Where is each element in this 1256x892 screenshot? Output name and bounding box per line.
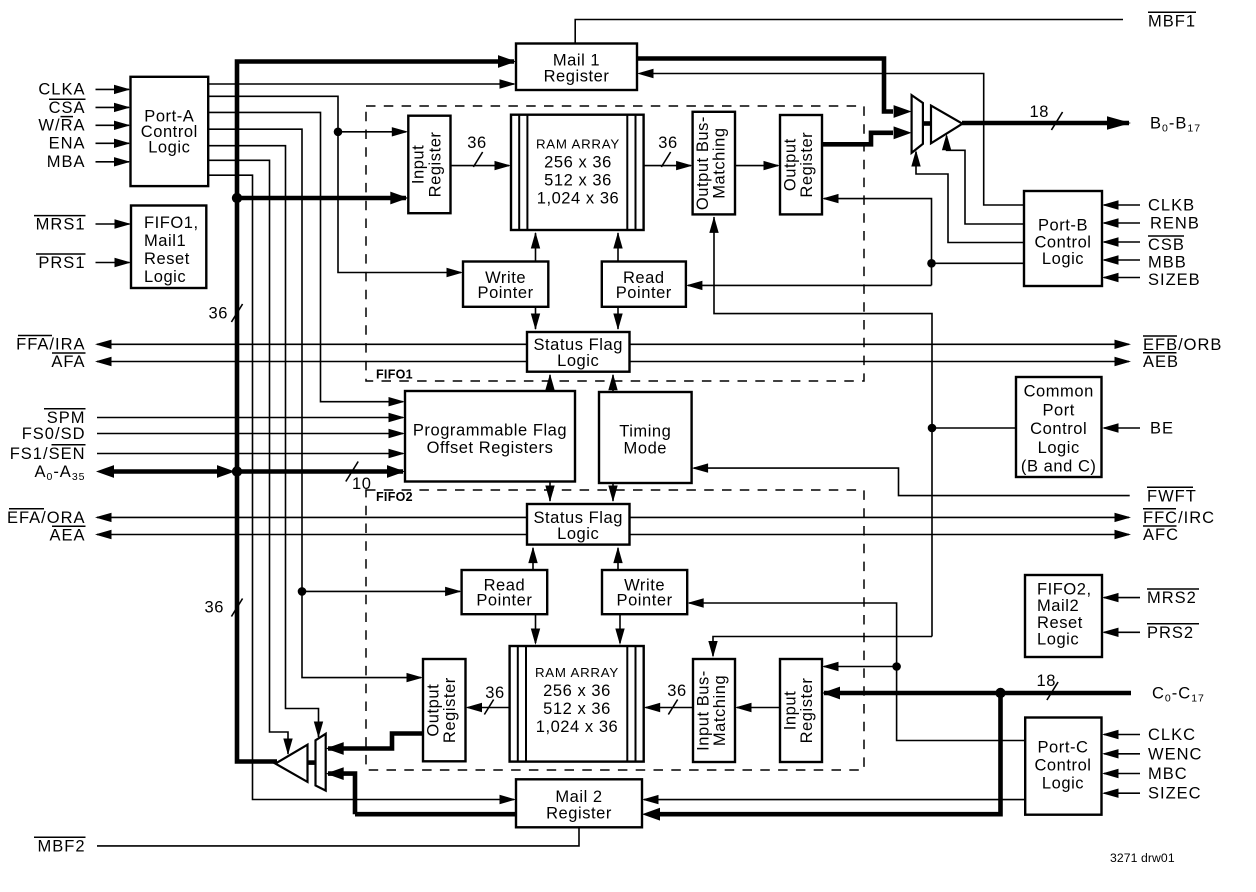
pin arrow Mail 2 write from Port-C bbox=[642, 795, 659, 804]
label C0-C17 bbox=[1152, 684, 1205, 704]
svg-text:MBB: MBB bbox=[1148, 254, 1187, 272]
pin arrow mux 2 input from C bus (thick) bbox=[326, 767, 344, 780]
label FS0/SD bbox=[22, 425, 86, 443]
pin arrow FWFT into Timing Mode bbox=[692, 463, 709, 472]
label CLKB bbox=[1148, 197, 1195, 215]
svg-text:CLKB: CLKB bbox=[1148, 197, 1195, 215]
svg-text:Control: Control bbox=[1034, 757, 1091, 775]
svg-text:FIFO1: FIFO1 bbox=[376, 368, 413, 382]
wire Common Port Control to Bus-Matching blocks bbox=[713, 217, 1016, 656]
node Common Port control junction bbox=[928, 424, 937, 433]
svg-text:PRS2: PRS2 bbox=[1147, 624, 1194, 642]
wire AEA - AFC status line bbox=[97, 534, 1129, 536]
svg-text:Port-B: Port-B bbox=[1038, 217, 1088, 235]
pin arrow A0-A35 left (thick) bbox=[96, 465, 114, 478]
block Output Register 2 bbox=[423, 659, 466, 761]
pin arrow Write Pointer 1 to Status Flag Logic 1 bbox=[531, 314, 540, 331]
wire Read Pointer 2 to RAM array 2 bbox=[535, 614, 537, 643]
svg-text:10: 10 bbox=[352, 475, 371, 493]
bus width 36 slash on A-bus upper bbox=[209, 304, 243, 323]
label MBB bbox=[1148, 254, 1187, 272]
pin arrow Read Pointer 2 control bbox=[445, 587, 462, 596]
wire A-port data bus spine (thick) bbox=[237, 62, 514, 762]
wire Input Register 1 to RAM array 1 (36) bbox=[451, 165, 510, 167]
wire Port-C to Write Pointer 2 and Input Register 2 bbox=[689, 603, 1025, 741]
FIFO2 dashed boundary bbox=[366, 490, 864, 770]
wire Port-A line 3 to Programmable Flag Offset Registers bbox=[208, 112, 403, 401]
buffer B output (triangle) bbox=[923, 106, 963, 144]
block Input Register 2 bbox=[780, 659, 822, 762]
svg-text:Mode: Mode bbox=[624, 440, 667, 458]
pin arrow mux 1 input from Output Register 1 (thick) bbox=[894, 126, 912, 139]
pin arrows into FIFO2 Mail2 Reset Logic bbox=[1102, 593, 1119, 637]
wire Port-A line 5 to output mux 2 select bbox=[208, 146, 319, 737]
wire RENB input bbox=[1104, 222, 1140, 224]
svg-text:MRS1: MRS1 bbox=[36, 216, 86, 234]
svg-text:Pointer: Pointer bbox=[617, 591, 673, 609]
wire CLKB input bbox=[1104, 204, 1140, 206]
wire B0-B17 output bus (thick) bbox=[962, 121, 1129, 126]
wire CSA input bbox=[96, 106, 130, 108]
svg-text:FFC/IRC: FFC/IRC bbox=[1143, 509, 1215, 527]
pin arrow mux 1 select bbox=[911, 150, 920, 167]
pin arrows status FIFO1 left bbox=[95, 340, 112, 367]
block Mail 1 Register bbox=[516, 44, 637, 91]
svg-text:18: 18 bbox=[1037, 672, 1056, 690]
svg-text:MBF2: MBF2 bbox=[37, 837, 85, 855]
wire RAM array 2 to Output Register 2 (36) bbox=[468, 707, 510, 709]
wire Output Bus-Matching to Output Register 1 bbox=[735, 165, 778, 167]
wire MRS2 input bbox=[1104, 597, 1140, 599]
label BE bbox=[1150, 419, 1174, 437]
svg-text:Timing: Timing bbox=[619, 423, 671, 441]
svg-text:AFC: AFC bbox=[1143, 526, 1179, 544]
svg-text:AEA: AEA bbox=[49, 526, 85, 544]
svg-text:3271 drw01: 3271 drw01 bbox=[1110, 851, 1175, 865]
pin arrow Input Register 2 to Input Bus-Matching bbox=[735, 703, 752, 712]
label SIZEC bbox=[1148, 785, 1202, 803]
label FIFO1 boundary bbox=[376, 368, 413, 382]
wire MBA input bbox=[96, 161, 130, 163]
block FIFO1 Mail1 Reset Logic bbox=[131, 206, 206, 289]
pin arrows into Port-A Control Logic bbox=[114, 85, 131, 167]
svg-text:MBC: MBC bbox=[1148, 765, 1188, 783]
node A0-A35 junction bbox=[232, 466, 242, 476]
svg-text:FFA/IRA: FFA/IRA bbox=[16, 336, 85, 354]
label PRS1 (active low) bbox=[36, 254, 86, 272]
svg-text:18: 18 bbox=[1030, 103, 1049, 121]
label AEB bbox=[1143, 353, 1179, 371]
pin arrow buffer 2 enable bbox=[283, 739, 292, 756]
pin arrows into Port-B Control Logic bbox=[1102, 200, 1119, 282]
pin arrow Timing Mode to Status Flag Logic 1 bbox=[608, 374, 617, 391]
block RAM ARRAY FIFO1 bbox=[511, 115, 644, 230]
wire Write Pointer 1 to RAM array 1 bbox=[535, 233, 537, 262]
pin arrows into Programmable Flag Offset Registers bbox=[387, 397, 405, 478]
pin arrow Output Bus-Matching to Output Register 1 bbox=[764, 161, 781, 170]
wire Input Bus-Matching to RAM array 2 (36) bbox=[646, 707, 694, 709]
pin arrow Mail 2 read enable bbox=[500, 795, 517, 804]
pin arrow Input Bus-Matching control bbox=[708, 641, 717, 658]
wire BE input bbox=[1104, 427, 1140, 429]
buffer C output (triangle) bbox=[275, 745, 315, 782]
svg-text:Programmable Flag: Programmable Flag bbox=[413, 422, 567, 440]
svg-text:RAM ARRAY: RAM ARRAY bbox=[536, 137, 620, 152]
svg-text:36: 36 bbox=[658, 134, 677, 152]
svg-text:36: 36 bbox=[485, 684, 504, 702]
pin arrow Input Register 1 to RAM1 bbox=[495, 161, 512, 170]
wire FS1/SEN input bbox=[97, 453, 403, 455]
label MBF1 (active low) bbox=[1148, 12, 1196, 30]
svg-text:W/RA: W/RA bbox=[38, 117, 85, 135]
pin arrow Write Pointer 2 to Status Flag Logic 2 bbox=[613, 547, 622, 564]
pin arrows status FIFO2 right bbox=[1115, 513, 1132, 540]
svg-text:Logic: Logic bbox=[557, 352, 599, 370]
svg-text:AFA: AFA bbox=[51, 353, 85, 371]
label EFB/ORB bbox=[1143, 336, 1222, 354]
svg-text:36: 36 bbox=[205, 599, 224, 617]
wire Port-B read to Mail 1 Register bbox=[651, 74, 1024, 206]
pin arrow buffer 1 enable bbox=[942, 134, 951, 151]
svg-text:MBA: MBA bbox=[47, 153, 86, 171]
label PRS2 (active low) bbox=[1147, 624, 1199, 642]
svg-text:Logic: Logic bbox=[148, 139, 190, 157]
label AFA bbox=[51, 353, 85, 371]
mux C output (trapezoid) bbox=[316, 734, 326, 791]
block Status Flag Logic FIFO2 bbox=[527, 504, 630, 545]
pin arrow Write Pointer 2 to RAM2 bbox=[615, 629, 624, 646]
pin arrows status FIFO1 right bbox=[1115, 340, 1132, 367]
wire Write Pointer 2 to Status Flag Logic 2 bbox=[617, 548, 619, 570]
block Write Pointer 1 bbox=[463, 262, 548, 307]
svg-text:MRS2: MRS2 bbox=[1147, 589, 1197, 607]
wire Programmable Flag Offset to Status Flag Logic 2 bbox=[549, 482, 551, 502]
block Port-A Control Logic bbox=[131, 77, 209, 186]
wire RAM array 1 to Output Bus-Matching (36) bbox=[644, 165, 691, 167]
svg-text:Reset: Reset bbox=[144, 250, 190, 268]
block Write Pointer 2 bbox=[602, 570, 687, 614]
block Output Bus-Matching FIFO1 bbox=[693, 112, 735, 215]
svg-text:Offset Registers: Offset Registers bbox=[427, 439, 554, 457]
wire Port-A line 6 to output buffer 2 enable bbox=[208, 160, 288, 754]
pin arrow Input Register 1 data (thick) bbox=[390, 192, 408, 205]
wire Output Register 1 to B mux (thick) bbox=[822, 133, 893, 145]
wire Timing Mode to Status Flag Logic 2 bbox=[612, 483, 614, 501]
block Common Port Control Logic (B and C) bbox=[1016, 377, 1102, 477]
svg-text:EFA/ORA: EFA/ORA bbox=[7, 509, 86, 527]
wire C bus to mux 2 and Mail 2 Register (thick) bbox=[328, 693, 1001, 814]
wire MBF2 from Mail 2 Register bbox=[97, 827, 579, 846]
svg-text:Logic: Logic bbox=[1037, 631, 1079, 649]
pin arrow mux 1 input from Mail 1 (thick) bbox=[894, 105, 912, 118]
svg-text:EFB/ORB: EFB/ORB bbox=[1143, 336, 1222, 354]
label MRS1 (active low) bbox=[34, 216, 86, 234]
wire Timing Mode to Status Flag Logic 1 bbox=[612, 375, 614, 392]
pin arrow mux 2 select bbox=[314, 722, 323, 739]
svg-text:Mail1: Mail1 bbox=[144, 232, 186, 250]
mux B output (trapezoid) bbox=[912, 95, 923, 153]
label B0-B17 bbox=[1150, 115, 1201, 135]
wire Programmable Flag Offset to Status Flag Logic 1 bbox=[549, 375, 551, 391]
pin arrow Input Register 1 clock bbox=[392, 127, 409, 136]
block Port-B Control Logic bbox=[1024, 191, 1102, 286]
svg-text:Logic: Logic bbox=[557, 525, 599, 543]
block Status Flag Logic FIFO1 bbox=[527, 332, 630, 372]
svg-text:Logic: Logic bbox=[1042, 775, 1084, 793]
pin arrow Input Register 2 clock bbox=[822, 662, 839, 671]
svg-text:Control: Control bbox=[1030, 420, 1087, 438]
wire CLKA input bbox=[96, 88, 130, 90]
pin arrow Write Pointer 1 to RAM1 bbox=[531, 232, 540, 249]
label W/RA bbox=[38, 117, 85, 135]
svg-text:FWFT: FWFT bbox=[1147, 487, 1197, 505]
block Read Pointer 2 bbox=[462, 570, 548, 614]
svg-text:Logic: Logic bbox=[144, 268, 186, 286]
svg-text:(B and C): (B and C) bbox=[1021, 458, 1097, 476]
wire Port-A line 7 to Mail 2 Register (write) bbox=[208, 175, 514, 799]
svg-text:Reset: Reset bbox=[1037, 614, 1083, 632]
wire Write Pointer 2 to RAM array 2 bbox=[619, 614, 621, 643]
wire MBF1 from Mail 1 Register bbox=[575, 20, 1123, 44]
pin arrow RAM1 to Output Bus-Matching bbox=[676, 161, 693, 170]
node Port-C control junction bbox=[892, 662, 901, 671]
bus width 18 slash B bus bbox=[1030, 103, 1063, 130]
wire ENA input bbox=[96, 142, 130, 144]
svg-text:FS1/SEN: FS1/SEN bbox=[10, 445, 86, 463]
pin arrows into Port-C Control Logic bbox=[1102, 730, 1119, 798]
label A0-A35 bbox=[34, 463, 85, 483]
label CLKA bbox=[38, 81, 85, 99]
wire Read Pointer 2 to Status Flag Logic 2 bbox=[532, 548, 534, 570]
svg-text:Port-C: Port-C bbox=[1038, 739, 1089, 757]
svg-text:CSB: CSB bbox=[1148, 236, 1185, 254]
pin arrow B0-B17 output (thick) bbox=[1107, 116, 1131, 130]
wire Port-B to mux 1 select bbox=[916, 152, 1024, 243]
svg-text:FS0/SD: FS0/SD bbox=[22, 425, 86, 443]
pin arrow RAM2 to Output Register 2 bbox=[466, 703, 483, 712]
block Output Register 1 bbox=[780, 115, 822, 214]
label SIZEB bbox=[1148, 271, 1201, 289]
svg-text:Mail2: Mail2 bbox=[1037, 597, 1079, 615]
label FS1/SEN bbox=[10, 445, 86, 463]
pin arrow Input Bus-Matching to RAM2 bbox=[644, 703, 661, 712]
node Port-B control junction bbox=[927, 259, 936, 268]
label CSB (active low) bbox=[1148, 236, 1185, 254]
pin arrow Input Register 2 data (thick) bbox=[822, 687, 840, 700]
wire MBB input bbox=[1104, 259, 1140, 261]
block Mail 2 Register bbox=[516, 779, 642, 827]
svg-text:Control: Control bbox=[1034, 234, 1091, 252]
pin arrow Mail 1 write enable bbox=[500, 79, 517, 88]
block RAM ARRAY FIFO2 bbox=[510, 646, 644, 762]
wire PRS2 input bbox=[1104, 631, 1140, 633]
pin arrow A0-A35 right (thick) bbox=[217, 465, 235, 478]
svg-text:Pointer: Pointer bbox=[616, 284, 672, 302]
wire FS0/SD input bbox=[97, 433, 403, 435]
svg-text:CLKC: CLKC bbox=[1148, 726, 1196, 744]
pin arrow Output Bus-Matching control bbox=[709, 216, 718, 233]
label SPM bbox=[44, 409, 86, 427]
svg-text:Mail 2: Mail 2 bbox=[555, 788, 602, 806]
pin arrow Output Register 2 clock bbox=[407, 673, 424, 682]
wire Port-B to output buffer 1 enable bbox=[947, 136, 1024, 224]
pin arrow Read Pointer 1 control bbox=[686, 281, 703, 290]
wire WENC input bbox=[1104, 753, 1140, 755]
wire AFA - AEB status line bbox=[97, 361, 1129, 363]
svg-text:Pointer: Pointer bbox=[476, 591, 532, 609]
svg-text:ENA: ENA bbox=[49, 135, 86, 153]
svg-text:36: 36 bbox=[467, 134, 486, 152]
wire Port-A line 2 to Input Register 1 and Write Pointer 1 bbox=[208, 96, 461, 272]
svg-text:Input Bus-Matching: Input Bus-Matching bbox=[694, 670, 729, 751]
bus width 36 slash input reg to RAM1 bbox=[467, 134, 486, 167]
pin arrow Write Pointer 1 input bbox=[447, 268, 464, 277]
svg-text:256 x 36: 256 x 36 bbox=[543, 682, 611, 700]
svg-text:Output Bus-Matching: Output Bus-Matching bbox=[694, 116, 729, 210]
label RENB bbox=[1150, 215, 1200, 233]
bus width 10 slash to flag offset registers bbox=[346, 462, 372, 494]
svg-text:512 x 36: 512 x 36 bbox=[543, 700, 611, 718]
wire Port-A line 4 to Read Pointer 2 and Output Register 2 bbox=[208, 129, 460, 677]
wire Write Pointer 1 to Status Flag Logic 1 bbox=[535, 307, 537, 329]
label AEA bbox=[49, 526, 85, 544]
svg-text:Logic: Logic bbox=[1038, 439, 1080, 457]
bus width 18 slash C bus bbox=[1037, 672, 1059, 700]
pin arrow mux 2 input from Output Register 2 (thick) bbox=[326, 742, 344, 755]
wire A-bus branch to Input Register 1 (thick) bbox=[237, 196, 406, 201]
wire A0-A35 bidirectional stub (thick) bbox=[109, 469, 222, 474]
wire Mail 1 Register output to B mux (thick) bbox=[637, 59, 893, 112]
bus width 36 slash on A-bus lower bbox=[205, 599, 243, 617]
label MBA bbox=[47, 153, 86, 171]
node C-bus junction bbox=[995, 688, 1005, 698]
wire Input Register 2 to Input Bus-Matching bbox=[737, 707, 780, 709]
svg-text:36: 36 bbox=[209, 305, 228, 323]
label FWFT (active low) bbox=[1147, 487, 1197, 505]
wire SPM input bbox=[97, 417, 403, 419]
pin arrow Mail 1 write (thick) bbox=[498, 55, 516, 68]
svg-text:1,024 x 36: 1,024 x 36 bbox=[537, 190, 620, 208]
wire Read Pointer 1 to Status Flag Logic 1 bbox=[617, 307, 619, 329]
wire FFA/IRA - EFB/ORB status line bbox=[97, 343, 1129, 345]
svg-text:Logic: Logic bbox=[1042, 250, 1084, 268]
label EFA/ORA bbox=[7, 509, 86, 527]
svg-text:OutputRegister: OutputRegister bbox=[425, 677, 460, 743]
wire PRS1 input bbox=[96, 262, 130, 264]
svg-text:PRS1: PRS1 bbox=[38, 254, 85, 272]
pin arrow Output Register 1 control bbox=[822, 194, 839, 203]
label CLKC bbox=[1148, 726, 1196, 744]
block Timing Mode bbox=[599, 392, 692, 483]
svg-text:RENB: RENB bbox=[1150, 215, 1200, 233]
block Input Register 1 bbox=[408, 116, 450, 214]
wire CLKC input bbox=[1104, 734, 1140, 736]
node A-bus to Input Register 1 junction bbox=[232, 193, 242, 203]
wire Read Pointer 1 to RAM array 1 bbox=[617, 233, 619, 262]
svg-text:WENC: WENC bbox=[1148, 745, 1202, 763]
wire Port-A to Mail 1 Register (write) bbox=[208, 83, 514, 85]
pin arrow BE into Common Port Control bbox=[1102, 423, 1119, 432]
svg-text:MBF1: MBF1 bbox=[1148, 12, 1196, 30]
wire MBC input bbox=[1104, 773, 1140, 775]
svg-text:1,024 x 36: 1,024 x 36 bbox=[536, 718, 619, 736]
svg-text:Common: Common bbox=[1024, 383, 1094, 401]
wire W/RA input bbox=[96, 124, 130, 126]
svg-text:FIFO1,: FIFO1, bbox=[144, 214, 199, 232]
svg-text:FIFO2: FIFO2 bbox=[376, 490, 413, 504]
pin arrow Read Pointer 2 to RAM2 bbox=[531, 629, 540, 646]
wire SIZEB input bbox=[1104, 277, 1140, 279]
pin arrow Mail 2 data (thick) bbox=[642, 808, 660, 821]
block Programmable Flag Offset Registers bbox=[405, 391, 575, 482]
node Port-A line 4 junction bbox=[298, 587, 307, 596]
wire CSB input bbox=[1104, 241, 1140, 243]
wire Port-C read to Mail 2 Register bbox=[644, 799, 1025, 801]
wire EFA/ORA - FFC/IRC status line bbox=[97, 516, 1129, 518]
block FIFO2 Mail2 Reset Logic bbox=[1025, 575, 1102, 657]
label MBC bbox=[1148, 765, 1188, 783]
svg-text:BE: BE bbox=[1150, 419, 1174, 437]
svg-text:CSA: CSA bbox=[49, 99, 86, 117]
wire Output Register 2 to C mux (thick) bbox=[328, 734, 423, 749]
FIFO1 dashed boundary bbox=[366, 106, 864, 381]
svg-text:Register: Register bbox=[544, 68, 610, 86]
label MRS2 (active low) bbox=[1147, 589, 1199, 607]
label FIFO2 boundary bbox=[376, 490, 413, 504]
label WENC bbox=[1148, 745, 1202, 763]
svg-text:Port: Port bbox=[1042, 401, 1074, 419]
svg-text:FIFO2,: FIFO2, bbox=[1037, 581, 1092, 599]
block Read Pointer 1 bbox=[602, 262, 686, 307]
wire A-bus branch to Programmable Flag Offset Registers (thick) bbox=[237, 469, 403, 474]
block Port-C Control Logic bbox=[1025, 718, 1101, 815]
svg-text:AEB: AEB bbox=[1143, 353, 1179, 371]
svg-text:36: 36 bbox=[667, 682, 686, 700]
bus width 36 slash RAM1 to bus-matching bbox=[658, 134, 677, 167]
svg-text:SIZEC: SIZEC bbox=[1148, 785, 1202, 803]
pin arrows status FIFO2 left bbox=[95, 513, 112, 540]
bus width 36 slash RAM2 to output reg 2 bbox=[484, 684, 504, 715]
label AFC bbox=[1143, 526, 1179, 544]
pin arrows into FIFO1 Mail1 Reset Logic bbox=[115, 219, 132, 267]
pin arrow Read Pointer 1 to Status Flag Logic 1 bbox=[613, 314, 622, 331]
label ENA bbox=[49, 135, 86, 153]
pin arrow Prog Flag to Status Flag Logic 2 bbox=[545, 486, 554, 503]
pin arrow Read Pointer 2 to Status Flag Logic 2 bbox=[528, 547, 537, 564]
svg-text:256 x 36: 256 x 36 bbox=[544, 154, 612, 172]
svg-text:CLKA: CLKA bbox=[38, 81, 85, 99]
label FFA/IRA bbox=[16, 336, 85, 354]
label drawing number bbox=[1110, 851, 1175, 865]
pin arrow Write Pointer 2 control bbox=[687, 598, 704, 607]
wire Port-B to Output Register 1 and Read Pointer 1 bbox=[688, 199, 1024, 286]
label CSA (active low) bbox=[49, 99, 86, 117]
svg-text:RAM ARRAY: RAM ARRAY bbox=[535, 665, 619, 680]
block Input Bus-Matching FIFO2 bbox=[693, 659, 735, 762]
svg-text:Pointer: Pointer bbox=[478, 284, 534, 302]
svg-text:512 x 36: 512 x 36 bbox=[544, 172, 612, 190]
pin arrow Prog Flag to Status Flag Logic 1 bbox=[545, 374, 554, 391]
pin arrow Mail 1 read (from Port-B) bbox=[637, 69, 654, 78]
label FFC/IRC bbox=[1143, 509, 1215, 527]
wire C0-C17 data bus (thick) bbox=[824, 691, 1131, 696]
label MBF2 (active low) bbox=[34, 837, 86, 855]
bus width 36 slash bus-matching to RAM2 bbox=[667, 682, 686, 715]
node Port-A line 2 junction bbox=[334, 128, 343, 137]
pin arrow Read Pointer 1 to RAM1 bbox=[613, 232, 622, 249]
wire SIZEC input bbox=[1104, 792, 1140, 794]
wire MRS1 input bbox=[96, 223, 130, 225]
